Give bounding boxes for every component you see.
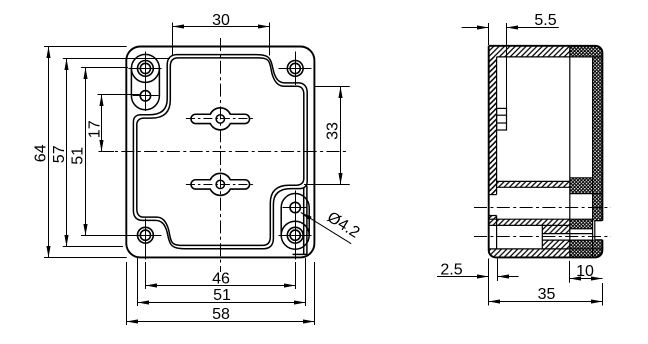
lid inner wall [592,57,594,258]
side view inner lines [489,46,603,258]
crosshatched lid: top right [570,46,603,57]
front view body outline [126,47,314,258]
hatched case: floor band1 [497,181,570,187]
screw hole bottom-left [138,227,154,243]
crosshatched lid: right strip upper [593,57,603,178]
slot axis lower [186,184,255,186]
crosshair bottom-right screw [279,235,312,237]
top band bottom edge [497,56,603,58]
svg-text:17: 17 [86,120,103,138]
dimension 10 (side bottom-right) [570,261,603,283]
lid pocket corner lines bottom-right [293,186,307,255]
wall inner edge [496,57,498,195]
dimension 2.5 (side bottom-left) [437,259,519,282]
svg-text:2.5: 2.5 [440,261,462,278]
wall window edges [489,194,497,196]
hatched case: band2 [489,219,570,225]
dimension 57 (left) [63,59,170,247]
leader dia 4.2 [301,212,351,243]
hatched case: left wall [489,57,497,195]
svg-text:64: 64 [33,144,50,162]
band3 top [489,248,603,250]
slot axis upper [186,118,255,120]
hatched case: top band [489,46,570,195]
screw boss top-left (teardrop outline) [131,54,159,109]
svg-text:51: 51 [213,287,231,304]
band2 bottom [489,224,570,226]
band2 top [489,218,593,220]
crosshair bottom-left screw [122,235,162,237]
crosshatched lid: block3 [570,240,603,258]
dimension 35 (side bottom) [489,259,603,306]
screw boss bottom-right (teardrop outline) [281,194,309,250]
hatched case: bottom band3 [489,249,570,258]
mounting slot lower [191,173,250,195]
window slot [541,225,543,249]
notch [595,220,603,222]
hatched case: block under channel [542,240,570,249]
lid hole top-left small [140,91,150,101]
centerline vertical [220,38,222,272]
lid hole bottom-right small [290,202,300,212]
centerline horizontal [99,151,349,153]
crosshair top-right screw [279,68,312,70]
front view lid seam contour (inner line B) [137,58,304,246]
dimension 30 (top) [173,23,270,56]
svg-text:5.5: 5.5 [534,12,556,29]
svg-text:10: 10 [576,263,594,280]
side view outline [489,46,603,258]
hatched case: block above channel [542,225,570,233]
svg-text:33: 33 [325,122,342,140]
hatched case: wall block above band2 [489,216,497,220]
dimension 51 (bottom) [138,258,306,306]
case floor top [497,180,570,182]
svg-text:35: 35 [538,286,556,303]
dimension 64 (left) [44,47,127,258]
crosshatched lid: block2 [570,219,593,229]
case joint line [569,46,571,258]
front view lid seam contour (outer line A) [133,55,307,249]
dimension 46 (bottom) [146,262,296,289]
dimension 5.5 (side top) [462,23,559,108]
dimension 33 (right of front view) [304,87,350,185]
screw hole top-left [138,61,154,77]
crosshatched lid: strip mid [593,194,603,221]
screw boss bottom-right counterbore arc [281,221,309,235]
crosshair top-left screw [122,52,312,260]
svg-text:58: 58 [212,306,230,323]
svg-text:51: 51 [69,147,86,165]
svg-text:57: 57 [51,145,68,163]
lid cavity bottom [570,177,593,179]
mounting slot upper [191,108,250,130]
channel lines [542,233,592,235]
side view centerline 1 [474,207,611,209]
dimension 58 (bottom) [127,262,315,325]
screw hole bottom-right [287,227,303,243]
svg-text:30: 30 [212,12,230,29]
block2 bottom [570,228,593,230]
dimension 51 (left) [81,68,128,236]
clip rectangles [497,108,507,130]
screw hole top-right [287,61,303,77]
screw boss top-left counterbore arc [131,68,159,82]
svg-text:46: 46 [212,270,230,287]
lid block bottom [570,193,603,195]
case floor bottom [497,186,570,188]
crosshatched lid: block at floor [570,178,603,194]
side view centerline 2 [474,236,611,238]
dimension 17 (left) [98,95,141,152]
